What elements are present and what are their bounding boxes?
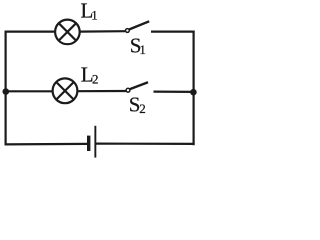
wire: L2 to S2 [77,90,126,92]
label S2 [129,92,146,116]
lamp L2 [53,78,78,103]
node: left junction [3,88,10,95]
wire: top-left segment [5,31,56,33]
svg-text:1: 1 [139,42,146,57]
wire: middle-left segment [6,90,53,92]
node: right junction [190,89,197,96]
label L1 [81,0,98,22]
wire: left vertical side [4,31,6,146]
svg-text:2: 2 [139,101,146,116]
battery: short negative plate [87,136,90,151]
wire: S1 to right side [151,31,195,33]
wire: bottom-left segment [5,143,87,146]
wire: right vertical side [193,31,195,146]
wire: L1 to S1 [80,30,126,33]
wire: bottom-right segment [96,143,195,145]
battery: long positive plate [94,126,96,158]
label S1 [130,33,146,57]
switch S1 [126,21,150,32]
label L2 [81,62,99,86]
switch S2 [126,82,148,92]
svg-text:1: 1 [91,7,98,22]
wire: S2 to right side [154,90,194,93]
svg-text:2: 2 [92,71,99,86]
lamp L1 [55,20,80,45]
